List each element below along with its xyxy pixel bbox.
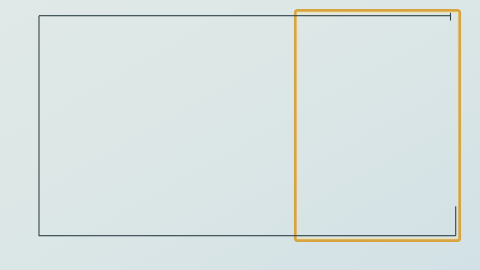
wire left rail <box>38 16 40 236</box>
wire top rail <box>39 15 451 17</box>
highlight box (orange) <box>295 10 459 240</box>
wire bottom rail <box>39 235 456 237</box>
wire inner-box right edge <box>455 206 457 235</box>
wire top rail end tick <box>450 13 452 21</box>
